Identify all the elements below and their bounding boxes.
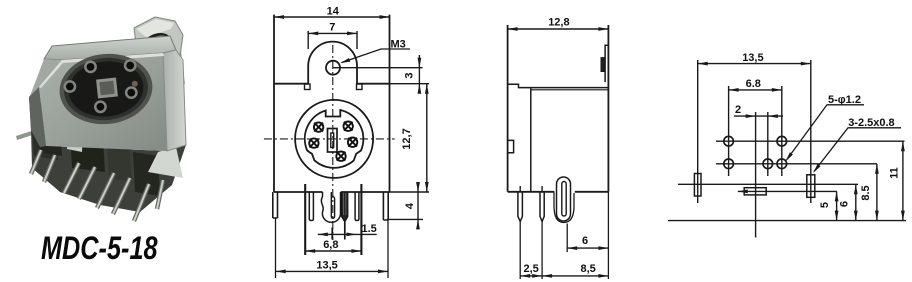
side pin 2 bbox=[540, 192, 544, 222]
center key slot bbox=[328, 129, 338, 153]
photo: dark base under body bbox=[29, 87, 186, 212]
socket pins bbox=[309, 122, 357, 161]
svg-text:5: 5 bbox=[819, 202, 831, 208]
tab base notch left bbox=[305, 84, 311, 90]
front body top edge bbox=[274, 83, 390, 85]
svg-text:6.8: 6.8 bbox=[746, 78, 761, 90]
svg-text:8.5: 8.5 bbox=[860, 185, 872, 200]
svg-text:6,8: 6,8 bbox=[323, 239, 338, 251]
svg-text:13,5: 13,5 bbox=[742, 52, 763, 64]
side latch bump bbox=[508, 140, 514, 152]
6.8 right extension bbox=[360, 184, 362, 255]
fork lock leg bbox=[321, 192, 340, 222]
photo: body top face bbox=[44, 36, 176, 60]
svg-text:3: 3 bbox=[404, 72, 416, 78]
dimension 7 bbox=[307, 31, 309, 49]
svg-text:2,5: 2,5 bbox=[524, 263, 539, 275]
photo: front face bbox=[39, 53, 167, 151]
dimension 4 bbox=[417, 183, 419, 228]
dimension 12,8 bbox=[508, 28, 609, 30]
shield slots bbox=[694, 174, 701, 197]
side pin 1 bbox=[518, 192, 523, 222]
photo: left dark sliver bbox=[29, 87, 46, 147]
dimension 13,5 bbox=[276, 270, 388, 272]
right leg extension bbox=[387, 220, 389, 278]
photo: tab rear support bbox=[164, 51, 185, 88]
svg-text:4: 4 bbox=[404, 202, 416, 209]
photo: socket face bbox=[66, 58, 146, 121]
dimension 3 bbox=[418, 55, 420, 93]
dimension 11 pcb bbox=[902, 141, 904, 220]
front body bottom edge bbox=[274, 191, 390, 193]
dimensions 2,5 and 8,5 bbox=[520, 275, 608, 277]
front body right edge bbox=[389, 15, 391, 192]
photo: key hole bbox=[96, 78, 118, 99]
side body bottom edge bbox=[508, 191, 609, 193]
right shield leg bbox=[383, 192, 388, 220]
slot row line bbox=[678, 183, 858, 185]
side fork leg bbox=[557, 177, 571, 221]
mounting tab sides bbox=[308, 66, 357, 84]
body top extension right bbox=[390, 83, 430, 85]
dimension 12,7 bbox=[426, 84, 428, 192]
photo: upper-left chamfer face bbox=[30, 59, 62, 96]
svg-text:6: 6 bbox=[839, 201, 851, 207]
svg-text:8,5: 8,5 bbox=[581, 263, 596, 275]
pin B bbox=[355, 192, 359, 221]
bottom reference line bbox=[668, 220, 906, 222]
left leg extension bbox=[275, 218, 277, 278]
left shield leg bbox=[273, 192, 278, 218]
dimension 6 pcb bbox=[855, 184, 857, 220]
photo: socket holes bbox=[64, 59, 138, 113]
dimension 2 pcb bbox=[734, 115, 783, 117]
dimension 13,5 pcb bbox=[698, 63, 811, 65]
side tab hole section bbox=[601, 58, 605, 72]
horizontal centerline bbox=[264, 138, 395, 140]
center line bbox=[755, 112, 757, 238]
dimension 5 pcb bbox=[836, 191, 838, 220]
hole columns bbox=[728, 86, 730, 176]
side body right edge bbox=[607, 25, 609, 192]
leg bottom extension bbox=[387, 218, 423, 220]
dimension 6 side bbox=[567, 247, 608, 249]
side body left edge bbox=[507, 25, 509, 192]
front body left edge bbox=[273, 15, 275, 192]
photo: legs bbox=[31, 150, 163, 221]
M3 screw hole bbox=[326, 61, 340, 75]
bottom hole row line bbox=[716, 163, 877, 165]
svg-text:12,8: 12,8 bbox=[548, 17, 569, 29]
svg-text:7: 7 bbox=[329, 22, 335, 34]
svg-text:2: 2 bbox=[735, 104, 741, 116]
photo: top edge highlight bbox=[39, 53, 164, 88]
dimension 14 bbox=[274, 16, 390, 18]
svg-text:1.5: 1.5 bbox=[362, 223, 377, 235]
hole center line right bbox=[333, 67, 423, 69]
photo: mounting tab bbox=[134, 17, 183, 63]
dimension 1.5 bbox=[318, 233, 377, 235]
svg-text:11: 11 bbox=[889, 167, 901, 179]
photo: socket ring bbox=[56, 49, 156, 128]
vertical centerline bbox=[332, 45, 334, 240]
side tab profile bbox=[605, 45, 608, 82]
dimension 8.5 pcb bbox=[876, 164, 878, 221]
tab base notch right bbox=[357, 84, 363, 90]
internal divider bbox=[530, 88, 532, 192]
svg-text:12,7: 12,7 bbox=[401, 128, 413, 149]
dimension 6.8 pcb bbox=[729, 89, 782, 91]
shield division lines bbox=[508, 84, 609, 87]
photo: left lead wire bbox=[16, 127, 45, 140]
photo: bright bottom-right face bbox=[148, 147, 183, 178]
photo: white insulator wedge bbox=[67, 128, 83, 152]
dark pin bbox=[341, 192, 348, 222]
svg-text:6: 6 bbox=[582, 235, 588, 247]
body bottom extension right bbox=[390, 191, 430, 193]
mid slot line bbox=[738, 190, 837, 192]
shield outer circle bbox=[295, 100, 373, 178]
pin holes bbox=[724, 136, 787, 168]
inner shell with notches bbox=[305, 110, 364, 168]
6.8 left extension bbox=[304, 184, 306, 255]
photo: right bright face bbox=[163, 50, 186, 151]
photo: tab hole bbox=[143, 30, 174, 54]
mounting tab arc bbox=[308, 42, 357, 66]
slot center lines bbox=[697, 60, 699, 203]
dark pin center extension bbox=[344, 222, 346, 240]
svg-text:13,5: 13,5 bbox=[316, 259, 337, 271]
svg-text:14: 14 bbox=[327, 5, 340, 17]
top hole row line bbox=[716, 140, 905, 142]
extension lines bbox=[519, 222, 521, 280]
dimension 6,8 bbox=[305, 250, 361, 252]
svg-text:MDC-5-18: MDC-5-18 bbox=[41, 231, 158, 267]
pin A bbox=[309, 192, 313, 221]
fork inner slot bbox=[331, 192, 334, 218]
